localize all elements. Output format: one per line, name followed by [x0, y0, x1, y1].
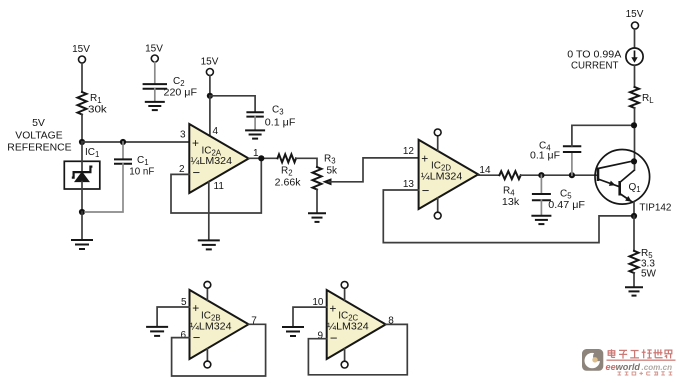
- svg-text:0.1 μF: 0.1 μF: [530, 150, 560, 161]
- current indicator 0 TO 0.99A: [567, 48, 643, 71]
- power terminal 15V feeding IC2A pin 4: [201, 57, 219, 76]
- svg-text:eeworld: eeworld: [606, 362, 641, 373]
- resistor R4 13k: [499, 171, 520, 208]
- wire current indicator to RL: [634, 65, 636, 87]
- svg-text:−: −: [193, 165, 201, 180]
- svg-text:15V: 15V: [626, 9, 644, 20]
- svg-text:0.1 μF: 0.1 μF: [265, 118, 296, 129]
- node I: collector junction inside wire: [631, 158, 637, 164]
- wire emitter to node J: [633, 202, 635, 216]
- op-amp IC2D 1/4 LM324: [403, 129, 491, 219]
- node C: C1 top node: [120, 139, 126, 145]
- ground below C2: [145, 102, 165, 110]
- ground below R5: [625, 287, 643, 295]
- svg-text:REFERENCE: REFERENCE: [7, 141, 71, 153]
- label 5V VOLTAGE REFERENCE: [7, 117, 71, 154]
- svg-text:0 TO 0.99A: 0 TO 0.99A: [567, 49, 621, 60]
- wire R1 bottom to reference node: [81, 115, 83, 143]
- svg-text:−: −: [422, 183, 430, 198]
- svg-text:2: 2: [179, 164, 185, 175]
- node H: collector / C4 node: [631, 122, 637, 128]
- wire R3 wiper to IC2D pin 12: [329, 158, 419, 182]
- svg-text:9: 9: [317, 331, 323, 342]
- svg-text:¼LM324: ¼LM324: [421, 170, 463, 182]
- ground below IC1: [71, 240, 93, 249]
- svg-text:CURRENT: CURRENT: [571, 60, 618, 71]
- resistor R1 30k: [78, 92, 108, 116]
- svg-text:+: +: [192, 301, 199, 315]
- wire R2 to R3 top: [296, 158, 317, 167]
- ground below C5: [531, 216, 551, 224]
- svg-text:−: −: [330, 331, 338, 346]
- wire node B to ground: [81, 212, 83, 240]
- capacitor C4 0.1uF: [530, 141, 580, 176]
- ground at IC2B pin 5: [146, 327, 168, 336]
- wire IC2D output to R4: [478, 174, 499, 176]
- wire IC2B pin 6 feedback from output 7: [172, 324, 266, 376]
- node G: C4 node: [569, 172, 575, 178]
- svg-text:220 μF: 220 μF: [164, 88, 198, 99]
- wire RL to collector: [634, 108, 636, 170]
- svg-text:15V: 15V: [145, 44, 163, 55]
- power terminal 15V feeding RL: [626, 9, 644, 29]
- ground below C3: [245, 130, 265, 138]
- wire 15V terminal to R1 top: [81, 63, 83, 92]
- svg-text:+: +: [329, 301, 336, 315]
- svg-text:.com.cn: .com.cn: [642, 362, 673, 372]
- op-amp IC2C 1/4 LM324 (unused buffer): [312, 282, 394, 369]
- wire C1 bottom to node B: [85, 164, 123, 212]
- wire supply node down to IC2A pin 4: [209, 96, 211, 136]
- wire IC2A output to R2: [249, 157, 278, 159]
- resistor R5 3.3 5W: [630, 248, 657, 280]
- wire reference node to IC2A pin 3: [82, 141, 189, 143]
- capacitor C1 10nF: [115, 142, 154, 177]
- capacitor C3 0.1uF: [247, 105, 295, 131]
- svg-text:¼LM324: ¼LM324: [190, 320, 232, 332]
- op-amp IC2A 1/4 LM324: [179, 124, 259, 193]
- power terminal 15V feeding C2: [145, 44, 163, 63]
- svg-text:1: 1: [253, 148, 259, 159]
- shunt reference IC1 (zener in box): [64, 142, 100, 212]
- svg-text:11: 11: [214, 181, 225, 192]
- node B: IC1 anode node: [79, 209, 85, 215]
- svg-text:15V: 15V: [201, 57, 219, 68]
- wire emitter node to R5: [633, 216, 635, 251]
- wire R3 bottom to ground: [316, 190, 318, 214]
- svg-text:+: +: [192, 136, 199, 150]
- svg-text:¼LM324: ¼LM324: [327, 321, 369, 333]
- node F: C5 node: [538, 172, 544, 178]
- svg-text:5W: 5W: [641, 269, 657, 280]
- wire IC2C pin 9 feedback from output 8: [308, 324, 407, 374]
- svg-text:12: 12: [403, 146, 415, 157]
- ground at IC2C pin 10: [282, 327, 304, 336]
- node E: IC2A output node: [258, 155, 264, 161]
- svg-text:4: 4: [213, 126, 219, 137]
- watermark eeworld logo: [582, 349, 676, 375]
- svg-text:VOLTAGE: VOLTAGE: [15, 130, 62, 142]
- op-amp IC2B 1/4 LM324 (unused buffer): [180, 281, 257, 368]
- wire IC2C pin 10 to ground: [293, 307, 327, 327]
- wire R5 to ground: [633, 273, 635, 287]
- svg-text:13: 13: [403, 179, 415, 190]
- wire C4 top to collector node: [572, 125, 634, 146]
- wire IC2B pin 5 to ground: [157, 307, 189, 327]
- node D: supply node: [207, 93, 213, 99]
- wire IC2A pin 2 feedback loop: [171, 158, 261, 213]
- svg-text:13k: 13k: [502, 197, 520, 208]
- resistor RL: [630, 87, 654, 108]
- capacitor C2 220uF: [144, 62, 197, 102]
- svg-text:3: 3: [180, 130, 186, 141]
- svg-text:0.47 μF: 0.47 μF: [548, 200, 585, 211]
- ground below IC2A pin 11: [198, 240, 220, 249]
- svg-text:30k: 30k: [88, 105, 108, 116]
- power terminal 15V feeding R1: [72, 44, 90, 63]
- wire 15V to current indicator: [634, 29, 636, 48]
- wire 15V to supply node: [209, 76, 211, 96]
- svg-text:10 nF: 10 nF: [129, 166, 154, 177]
- svg-text:¼LM324: ¼LM324: [191, 155, 233, 167]
- capacitor C5 0.47uF: [533, 175, 585, 215]
- wire IC2A pin 11 down: [208, 182, 210, 240]
- svg-text:+: +: [421, 152, 428, 166]
- svg-text:5V: 5V: [32, 117, 45, 129]
- svg-text:6: 6: [180, 330, 186, 341]
- node J: emitter node: [631, 213, 637, 219]
- ground below R3: [308, 213, 326, 222]
- resistor R2 2.66k: [275, 154, 302, 188]
- svg-text:5k: 5k: [327, 166, 339, 177]
- potentiometer R3 5k: [313, 154, 339, 190]
- node A: 5V reference node: [79, 139, 85, 145]
- wire IC2D pin 13 feedback from emitter node: [383, 190, 634, 243]
- svg-text:15V: 15V: [72, 44, 90, 55]
- wire supply node to C3: [210, 96, 255, 112]
- svg-text:2.66k: 2.66k: [275, 178, 302, 189]
- svg-text:TIP142: TIP142: [639, 203, 671, 214]
- transistor Q1 TIP142 darlington: [595, 150, 672, 214]
- wire R4 to base: [521, 174, 598, 176]
